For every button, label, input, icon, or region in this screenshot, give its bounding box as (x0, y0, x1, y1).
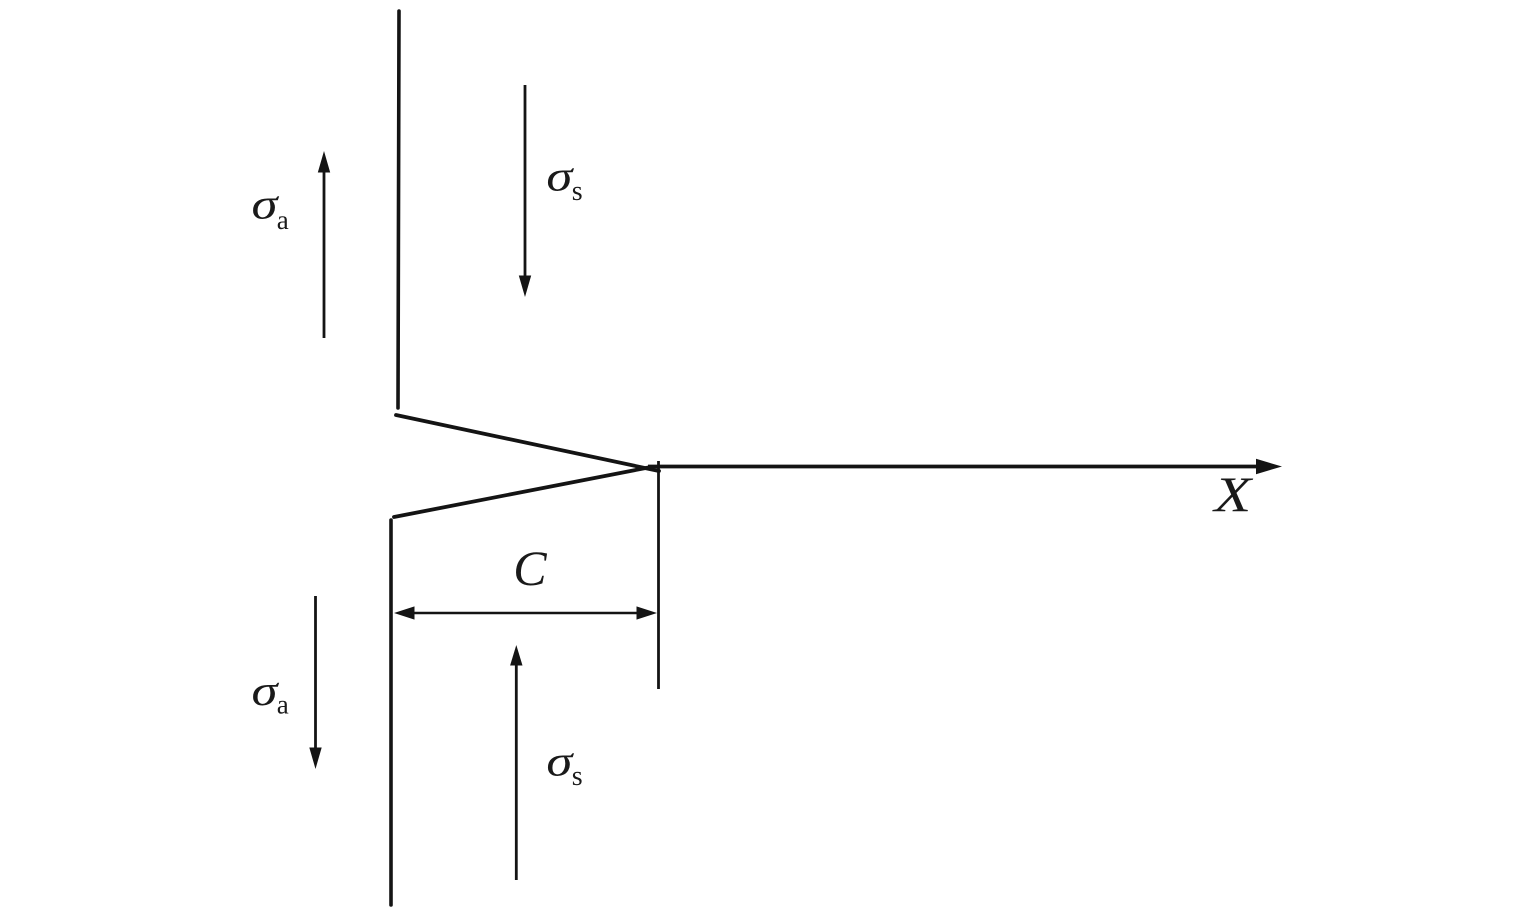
upper sigma_a up arrowhead (318, 151, 330, 173)
crack-tip vertical reference line (657, 461, 660, 689)
C dimension right arrowhead (637, 606, 658, 619)
lower crack flank (394, 467, 651, 517)
upper sigma_s down arrow shaft (524, 85, 527, 277)
lower sigma_a down arrow shaft (314, 596, 317, 749)
svg-text:a: a (277, 205, 289, 235)
svg-text:C: C (513, 540, 547, 596)
C dimension line (410, 612, 641, 615)
lower sigma_s up arrowhead (510, 645, 522, 666)
lower sigma_s up arrow shaft (515, 663, 518, 880)
svg-text:σ: σ (546, 739, 574, 786)
X axis line (648, 465, 1260, 469)
svg-text:s: s (572, 176, 583, 207)
C dimension left arrowhead (394, 606, 415, 619)
svg-text:s: s (572, 761, 583, 792)
upper sigma_s down arrowhead (519, 276, 531, 298)
svg-text:σ: σ (252, 181, 280, 228)
upper crack flank (396, 415, 659, 471)
svg-text:a: a (277, 690, 289, 720)
upper sigma_a up arrow shaft (323, 170, 326, 338)
svg-text:σ: σ (252, 668, 280, 715)
svg-text:X: X (1212, 466, 1254, 522)
svg-text:σ: σ (546, 153, 574, 200)
upper plate edge vertical line (398, 11, 399, 408)
lower sigma_a down arrowhead (309, 748, 321, 770)
lower plate edge vertical line (389, 520, 393, 905)
X axis arrowhead (1256, 459, 1282, 474)
